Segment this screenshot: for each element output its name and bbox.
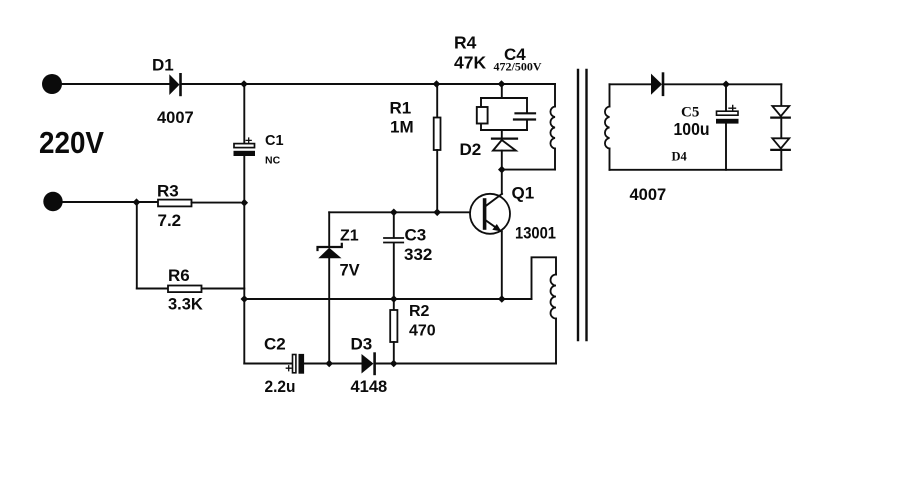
wire: R6 row right to main column <box>202 288 245 290</box>
svg-text:D1: D1 <box>152 56 174 75</box>
wire: R3 row from terminal <box>63 201 159 203</box>
node: R3/R6 branch junction <box>133 198 141 206</box>
LED D6 <box>771 118 790 170</box>
node: R2 bottom junction <box>390 360 398 368</box>
svg-text:3.3K: 3.3K <box>168 296 203 314</box>
transformer feedback winding <box>551 275 557 364</box>
wire: secondary bottom row <box>610 169 782 171</box>
svg-text:C2: C2 <box>264 335 286 354</box>
wire: secondary top left <box>610 83 652 85</box>
wire: top row from D1 to primary corner <box>182 83 555 85</box>
svg-text:D4: D4 <box>672 150 688 164</box>
node: C1 top junction <box>240 80 248 88</box>
wire: bottom row C2 to D3 <box>304 363 361 365</box>
diode D1 <box>169 74 180 95</box>
node: left junction of base row <box>241 295 249 303</box>
node: C3 top junction <box>390 209 398 217</box>
terminal: AC input bottom <box>43 192 62 211</box>
node: emitter row junction <box>498 295 506 303</box>
capacitor C2 <box>286 354 304 374</box>
transformer secondary winding <box>605 84 610 170</box>
svg-text:47K: 47K <box>454 53 486 73</box>
wire: bottom row left segment <box>244 363 292 365</box>
node: R3/C1 junction <box>241 199 249 207</box>
capacitor C1 <box>234 138 256 156</box>
diode D4 <box>651 74 663 95</box>
svg-text:4007: 4007 <box>630 186 667 204</box>
svg-text:332: 332 <box>404 245 432 264</box>
wire: emitter vertical <box>501 232 503 300</box>
svg-text:472/500V: 472/500V <box>494 60 542 74</box>
wire: secondary top right <box>664 83 781 85</box>
svg-text:R6: R6 <box>168 266 190 285</box>
svg-text:470: 470 <box>409 323 436 340</box>
svg-text:R1: R1 <box>390 99 412 118</box>
wire: R6 row left <box>137 288 168 290</box>
capacitor C5 <box>716 84 739 170</box>
wire: collector vertical <box>501 170 503 194</box>
wire: feedback winding link <box>532 257 557 299</box>
wire: main column from R3 row down to bottom row <box>243 203 245 364</box>
wire: top row from terminal to D1 <box>62 83 169 85</box>
resistor R4 <box>477 107 488 124</box>
wire: R3 to C1 column <box>192 202 241 204</box>
svg-text:D3: D3 <box>351 335 373 354</box>
resistor R6 <box>168 286 202 293</box>
node: C5 top junction <box>722 81 730 89</box>
wire: C1 vertical upper <box>243 84 245 144</box>
capacitor C3 <box>384 212 403 310</box>
svg-text:13001: 13001 <box>515 225 556 243</box>
svg-text:R2: R2 <box>409 303 430 320</box>
resistor R2 <box>390 310 397 364</box>
svg-text:7V: 7V <box>340 262 360 280</box>
svg-text:220V: 220V <box>39 126 105 160</box>
zener Z1 <box>318 212 342 363</box>
svg-text:4007: 4007 <box>157 109 194 127</box>
svg-text:NC: NC <box>265 155 281 167</box>
wire: snubber drop from top row <box>501 84 503 98</box>
node: R1 bottom junction <box>433 209 441 217</box>
node: R2 top junction <box>390 295 398 303</box>
transformer primary winding <box>550 84 555 170</box>
svg-text:100u: 100u <box>674 119 710 139</box>
terminal: AC input top <box>42 74 62 94</box>
transformer core <box>578 70 587 340</box>
svg-text:1M: 1M <box>390 118 414 137</box>
svg-text:D2: D2 <box>460 140 482 159</box>
svg-text:Z1: Z1 <box>340 228 359 245</box>
svg-text:C3: C3 <box>405 226 427 245</box>
node: Z1 bottom junction <box>325 360 333 368</box>
resistor R3 <box>158 200 192 207</box>
svg-text:R4: R4 <box>454 33 477 53</box>
snubber box wires (R4/C4 parallel) <box>481 98 527 130</box>
wire: base row (box top) <box>329 211 470 213</box>
svg-text:4148: 4148 <box>351 378 388 396</box>
svg-text:Q1: Q1 <box>512 184 535 203</box>
wire: emitter row <box>244 298 531 300</box>
node: collector/primary junction <box>498 166 506 174</box>
node: snubber top junction <box>498 80 506 88</box>
svg-text:2.2u: 2.2u <box>265 377 296 396</box>
wire: junction to primary bottom <box>502 169 555 171</box>
diode D3 <box>362 354 375 374</box>
svg-text:7.2: 7.2 <box>158 211 182 230</box>
node: R1 top junction <box>433 80 441 88</box>
svg-text:C1: C1 <box>265 133 284 149</box>
wire: left branch vertical to R6 row <box>136 203 138 289</box>
wire: bottom row D3 to feedback winding <box>376 363 556 365</box>
capacitor C4 <box>514 113 535 119</box>
wire: C1 vertical lower to R3 row <box>243 156 245 203</box>
diode D2 <box>492 130 517 170</box>
resistor R1 <box>434 84 441 212</box>
svg-text:R3: R3 <box>157 182 179 201</box>
LED D5 <box>771 84 790 117</box>
transistor Q1 <box>470 194 510 234</box>
